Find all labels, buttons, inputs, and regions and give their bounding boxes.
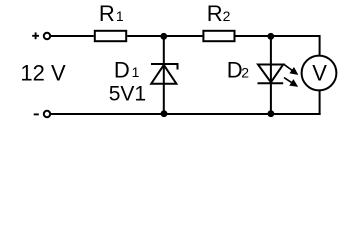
junction dot D2 bottom [268,110,275,117]
LED arrow 1 [284,64,297,74]
terminal + (top left) [44,33,50,39]
resistor R2 [203,31,234,41]
zener diode D1 [151,64,178,84]
LED arrow 2 [284,78,297,86]
wire D1 branch [163,36,165,114]
svg-text:1: 1 [116,8,124,24]
wire top rail left [51,35,94,37]
resistor R1 [95,31,126,41]
svg-text:R: R [207,1,223,26]
wire to voltmeter top [319,35,321,56]
plus sign [32,32,39,39]
wire D2 branch [270,36,272,114]
svg-text:5V1: 5V1 [109,82,146,105]
svg-text:2: 2 [241,64,249,80]
LED D2 [258,65,284,84]
junction dot D1 bottom [161,110,168,117]
svg-text:D: D [114,57,130,82]
svg-text:12 V: 12 V [20,60,66,85]
wire voltmeter bottom [319,90,321,115]
svg-text:2: 2 [223,8,231,24]
terminal - (bottom left) [44,111,50,117]
svg-text:R: R [99,1,115,26]
bottom rail wire [51,113,321,115]
wire top rail middle [127,35,202,37]
node B (junction R2/D2/V) [267,33,274,40]
minus sign [34,113,39,115]
voltmeter V [302,56,337,91]
node A (junction R1/R2/D1) [160,33,167,40]
wire top rail right [236,35,320,37]
svg-text:V: V [312,61,327,86]
svg-text:1: 1 [132,64,140,80]
